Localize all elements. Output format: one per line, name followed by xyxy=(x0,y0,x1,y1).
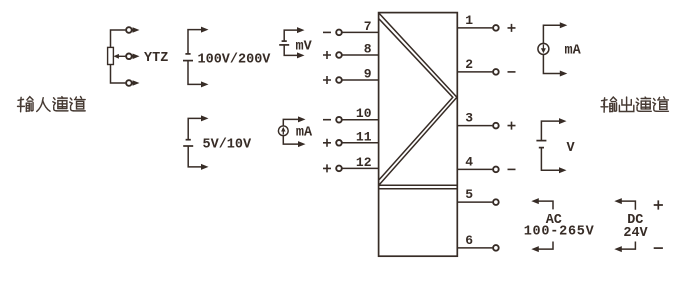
wire pin 1 xyxy=(457,27,492,29)
wire pin 11 xyxy=(343,142,379,144)
terminal circle pin 5 xyxy=(493,199,499,205)
text glyph 通 xyxy=(636,97,651,111)
terminal circle pin 8 xyxy=(336,52,342,58)
svg-text:100-265V: 100-265V xyxy=(524,225,595,240)
polarity + pin 3 xyxy=(508,122,516,130)
wire YTZ bottom lead xyxy=(111,65,126,84)
potentiometer YTZ body xyxy=(108,47,114,64)
battery B1 100V/200V xyxy=(188,30,203,54)
text glyph 通 xyxy=(53,97,68,111)
terminal circle YTZ top xyxy=(126,27,132,33)
wire pin 12 xyxy=(343,167,379,169)
svg-text:1: 1 xyxy=(465,13,473,28)
svg-text:5: 5 xyxy=(465,187,473,202)
AC supply arrows xyxy=(537,201,553,209)
svg-text:mA: mA xyxy=(565,44,582,59)
battery B2 5V/10V xyxy=(188,118,202,139)
wire pin 4 xyxy=(457,168,492,170)
svg-text:7: 7 xyxy=(364,19,372,34)
arrow YTZ wiper xyxy=(133,54,140,60)
text glyph 道 xyxy=(653,97,668,111)
polarity - pin 4 xyxy=(508,168,516,170)
svg-text:24V: 24V xyxy=(623,226,648,241)
battery B3 mV input xyxy=(284,30,298,41)
svg-text:6: 6 xyxy=(465,233,473,248)
terminal circle pin 10 xyxy=(336,117,342,123)
terminal circle pin 7 xyxy=(336,30,342,36)
current source mA output xyxy=(543,25,560,43)
current source mA input xyxy=(283,119,298,126)
wire pin 10 xyxy=(343,119,379,121)
wire pin 2 xyxy=(457,71,492,73)
svg-text:10: 10 xyxy=(356,106,372,121)
terminal circle pin 12 xyxy=(336,166,342,172)
terminal circle pin 3 xyxy=(493,123,499,129)
polarity + pin 11 xyxy=(323,139,331,147)
svg-text:V: V xyxy=(567,141,576,156)
wire pin 8 xyxy=(343,54,379,56)
terminal circle pin 2 xyxy=(493,69,499,75)
wire YTZ top lead xyxy=(111,30,126,47)
terminal circle pin 9 xyxy=(336,77,342,83)
terminal circle pin 1 xyxy=(493,25,499,31)
text glyph 输 xyxy=(601,97,616,112)
terminal circle YTZ bottom xyxy=(126,80,132,86)
svg-text:YTZ: YTZ xyxy=(144,51,168,66)
text glyph 道 xyxy=(70,97,85,111)
terminal circle pin 4 xyxy=(493,167,499,173)
polarity - pin 10 xyxy=(323,119,331,121)
isolation chevron outer xyxy=(379,13,457,185)
DC supply arrows xyxy=(620,201,635,210)
text glyph 输 xyxy=(18,97,33,112)
svg-text:100V/200V: 100V/200V xyxy=(198,52,272,67)
svg-text:3: 3 xyxy=(465,111,473,126)
svg-text:mA: mA xyxy=(296,126,313,141)
svg-text:12: 12 xyxy=(356,155,372,170)
svg-text:mV: mV xyxy=(296,40,313,55)
isolation chevron inner xyxy=(379,19,453,180)
polarity + pin 12 xyxy=(323,164,331,172)
wire pin 5 xyxy=(457,201,492,203)
isolator block U1 outline xyxy=(379,13,458,257)
isolator block separator double line xyxy=(379,184,458,186)
arrow YTZ top xyxy=(133,27,140,33)
terminal circle pin 6 xyxy=(493,245,499,251)
polarity - pin 2 xyxy=(508,71,516,73)
wire pin 9 xyxy=(343,79,379,81)
polarity - DC xyxy=(654,247,663,249)
text glyph 出 xyxy=(619,97,633,111)
text glyph 入 xyxy=(37,98,50,112)
wire pin 7 xyxy=(343,31,379,33)
svg-text:5V/10V: 5V/10V xyxy=(203,137,253,152)
terminal circle pin 11 xyxy=(336,140,342,146)
battery B4 V output xyxy=(541,121,560,141)
wire pin 6 xyxy=(457,247,492,249)
polarity + pin 9 xyxy=(323,76,331,84)
svg-text:9: 9 xyxy=(364,67,372,82)
svg-text:11: 11 xyxy=(356,129,372,144)
svg-text:4: 4 xyxy=(465,154,473,169)
arrow YTZ bottom xyxy=(133,80,140,86)
polarity + pin 1 xyxy=(508,24,516,32)
terminal circle YTZ wiper xyxy=(126,54,132,60)
wire pin 3 xyxy=(457,125,492,127)
polarity - pin 7 xyxy=(323,31,331,33)
polarity + pin 8 xyxy=(323,51,331,59)
svg-text:8: 8 xyxy=(364,42,372,57)
svg-text:2: 2 xyxy=(465,57,473,72)
wiper arrow YTZ xyxy=(117,55,126,57)
polarity + DC xyxy=(654,200,663,209)
